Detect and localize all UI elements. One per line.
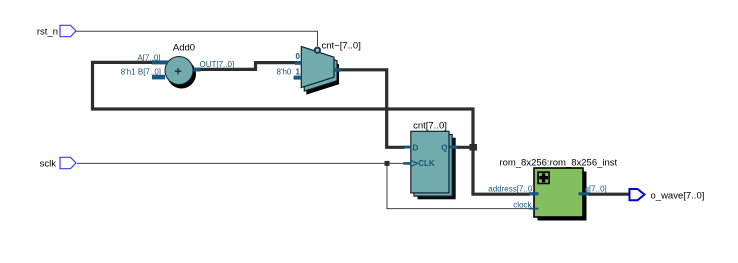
svg-text:1: 1: [296, 67, 301, 76]
svg-text:8'h0: 8'h0: [276, 67, 293, 76]
svg-text:rom_8x256:rom_8x256_inst: rom_8x256:rom_8x256_inst: [499, 158, 617, 169]
svg-text:sclk: sclk: [40, 159, 57, 170]
svg-text:cnt[7..0]: cnt[7..0]: [413, 121, 447, 132]
svg-text:o_wave[7..0]: o_wave[7..0]: [651, 190, 705, 201]
svg-text:Q: Q: [441, 143, 447, 152]
svg-text:CLK: CLK: [418, 159, 435, 168]
svg-text:D: D: [413, 143, 419, 152]
svg-text:0: 0: [296, 52, 301, 61]
svg-text:rst_n: rst_n: [37, 27, 58, 38]
svg-text:q[7..0]: q[7..0]: [585, 185, 607, 194]
svg-text:address[7..0]: address[7..0]: [488, 185, 534, 194]
svg-text:Add0: Add0: [173, 43, 195, 54]
svg-text:cnt~[7..0]: cnt~[7..0]: [322, 41, 361, 52]
svg-text:OUT[7..0]: OUT[7..0]: [200, 60, 235, 69]
